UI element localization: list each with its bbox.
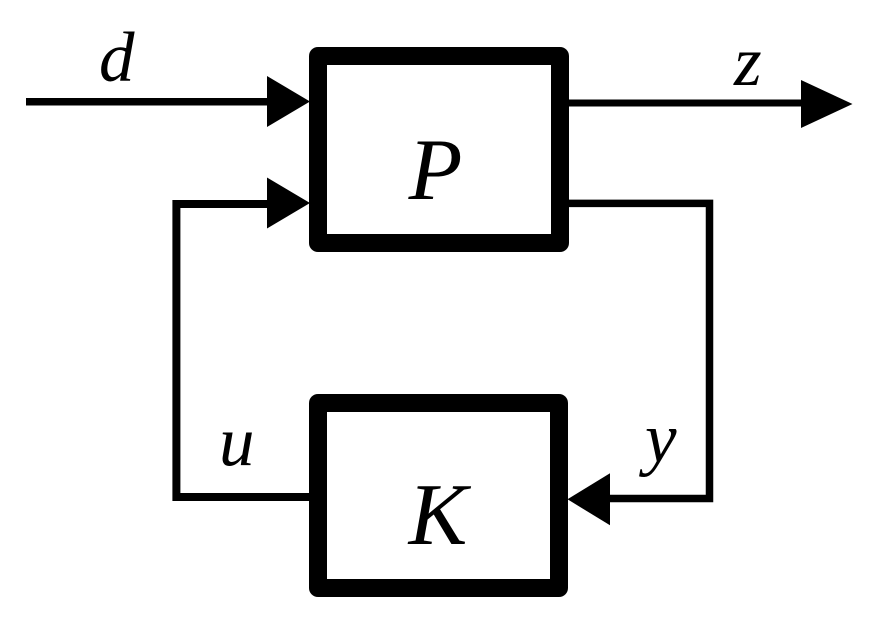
svg-text:z: z: [733, 23, 762, 101]
node y arrowhead into K: [568, 473, 611, 525]
svg-text:P: P: [408, 122, 463, 219]
svg-text:K: K: [407, 467, 472, 564]
wire z output: [569, 100, 801, 107]
node d arrowhead into P: [267, 76, 310, 127]
node u arrowhead into P: [267, 178, 310, 229]
svg-text:u: u: [219, 403, 255, 481]
wire feedback right: P output down to K input: [569, 203, 710, 498]
block P: [309, 47, 569, 252]
wire feedback left: K output up to P input: [176, 204, 309, 497]
wire d input: [26, 98, 267, 106]
svg-text:d: d: [99, 19, 135, 97]
node z arrowhead: [801, 80, 853, 128]
block K: [309, 394, 568, 597]
svg-text:y: y: [639, 400, 677, 478]
